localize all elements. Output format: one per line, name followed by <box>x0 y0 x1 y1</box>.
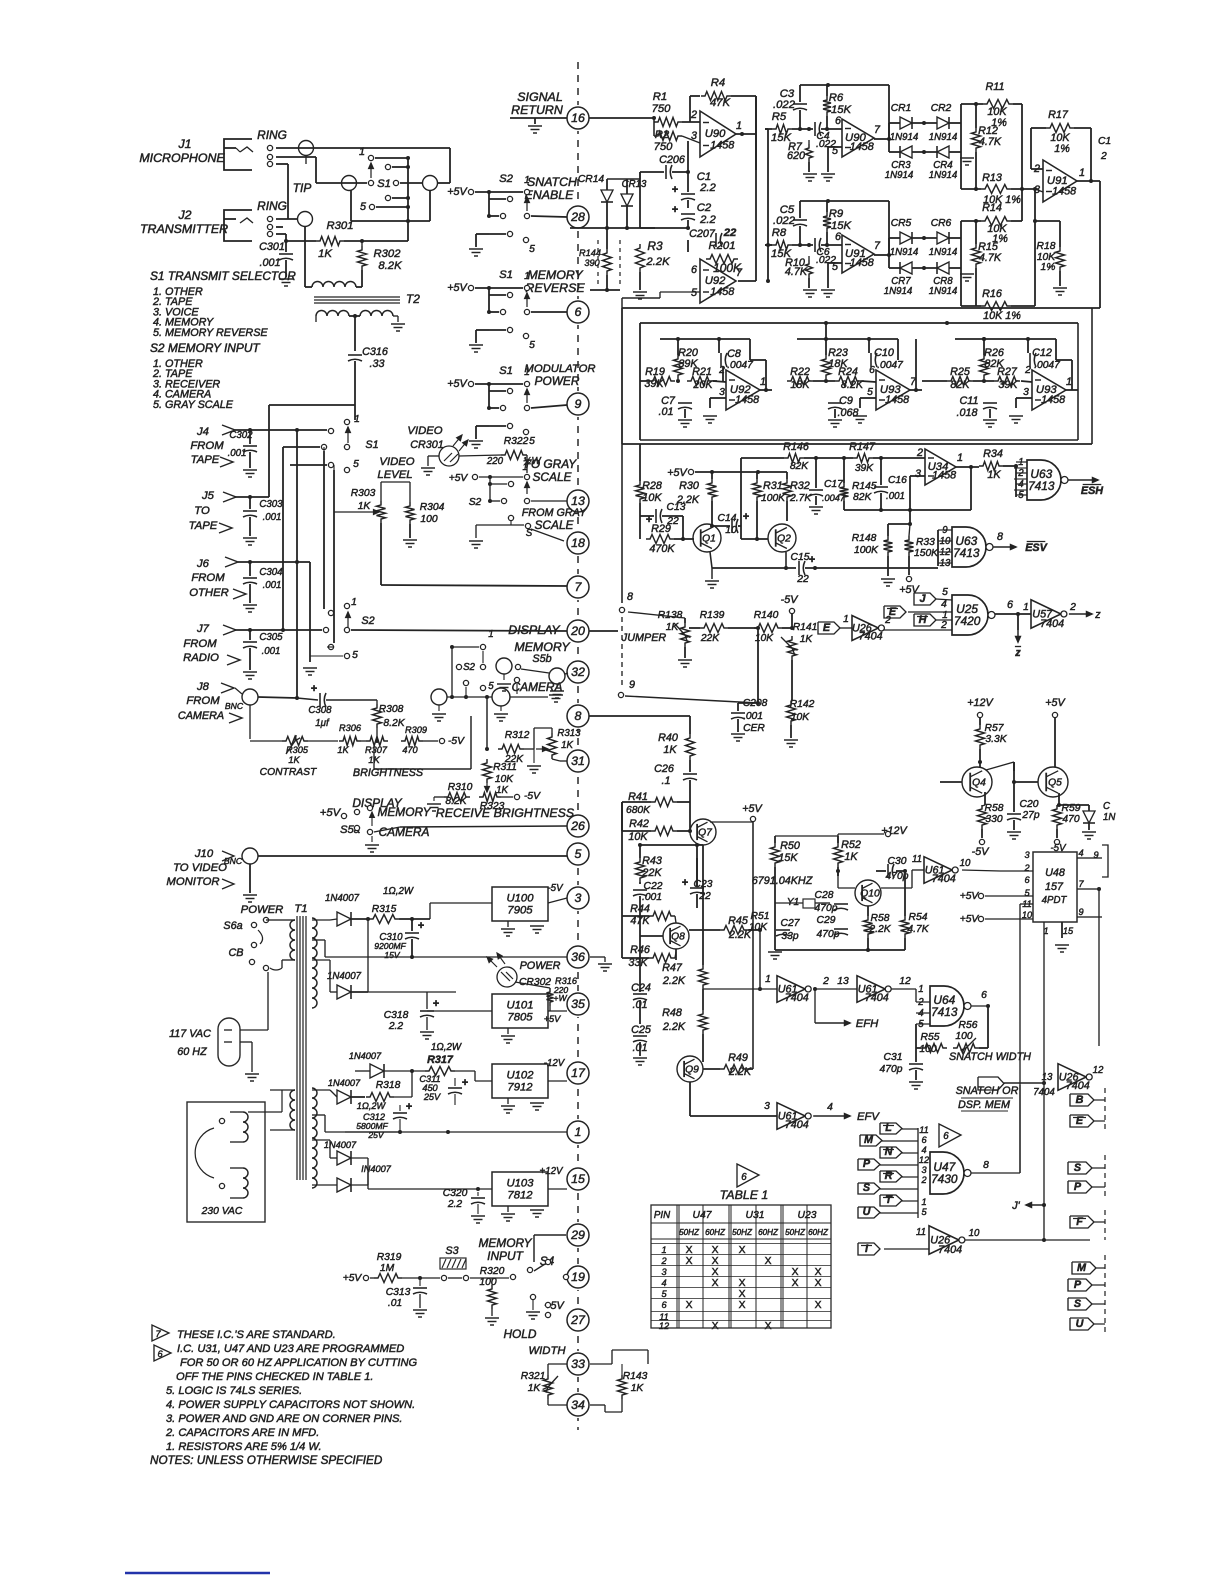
svg-text:C13: C13 <box>667 502 686 513</box>
svg-text:X: X <box>815 1300 822 1311</box>
svg-text:FROM: FROM <box>183 638 217 650</box>
svg-text:1: 1 <box>354 414 360 425</box>
svg-text:6: 6 <box>943 1131 949 1142</box>
svg-text:32: 32 <box>571 665 585 679</box>
svg-text:17: 17 <box>571 1066 586 1080</box>
svg-text:J5: J5 <box>201 490 215 502</box>
svg-text:27: 27 <box>570 1313 586 1327</box>
svg-text:CR1: CR1 <box>891 103 912 114</box>
svg-text:SNATCH: SNATCH <box>527 175 577 189</box>
svg-text:C2: C2 <box>697 202 712 214</box>
svg-text:2: 2 <box>940 620 947 631</box>
svg-text:C29: C29 <box>817 915 836 926</box>
svg-text:C301: C301 <box>259 241 285 253</box>
svg-text:2: 2 <box>690 109 697 121</box>
svg-text:1K: 1K <box>358 501 372 512</box>
svg-text:1: 1 <box>918 984 923 995</box>
svg-text:6: 6 <box>661 1300 667 1310</box>
svg-text:-5V: -5V <box>972 846 991 858</box>
svg-text:82K: 82K <box>950 379 970 391</box>
svg-text:33: 33 <box>571 1357 585 1371</box>
svg-text:C8: C8 <box>727 348 741 360</box>
svg-text:S1: S1 <box>499 365 513 377</box>
svg-text:R58: R58 <box>871 913 890 924</box>
svg-text:1%: 1% <box>1041 262 1056 273</box>
svg-text:3: 3 <box>921 1165 927 1175</box>
svg-text:.001: .001 <box>259 257 280 269</box>
svg-text:1458: 1458 <box>710 140 734 152</box>
svg-text:R302: R302 <box>373 248 401 260</box>
svg-text:28: 28 <box>570 210 585 224</box>
svg-text:R313: R313 <box>557 728 581 739</box>
svg-text:WIDTH: WIDTH <box>528 1345 566 1357</box>
svg-text:12: 12 <box>899 976 911 987</box>
svg-text:6: 6 <box>981 990 987 1001</box>
svg-text:7430: 7430 <box>931 1172 958 1186</box>
svg-text:1N: 1N <box>1103 812 1115 823</box>
svg-text:M: M <box>1077 1262 1087 1274</box>
svg-text:SNATCH OR: SNATCH OR <box>956 1085 1019 1097</box>
svg-text:CR6: CR6 <box>931 218 952 229</box>
svg-text:3: 3 <box>764 1101 770 1112</box>
svg-text:470p: 470p <box>817 929 840 940</box>
svg-text:4: 4 <box>921 1145 926 1155</box>
svg-text:1458: 1458 <box>850 141 874 153</box>
svg-text:100K: 100K <box>854 545 879 556</box>
svg-text:R301: R301 <box>326 220 353 232</box>
svg-text:T2: T2 <box>406 292 420 306</box>
svg-text:R318: R318 <box>376 1080 401 1091</box>
svg-text:NOTES: UNLESS OTHERWISE SPECIF: NOTES: UNLESS OTHERWISE SPECIFIED <box>150 1454 383 1467</box>
svg-text:10K 1%: 10K 1% <box>983 310 1021 322</box>
svg-text:1K: 1K <box>318 248 332 260</box>
svg-text:750: 750 <box>654 141 674 153</box>
svg-text:+: + <box>743 511 749 523</box>
svg-text:15: 15 <box>1063 926 1074 936</box>
svg-text:R56: R56 <box>959 1020 978 1031</box>
svg-text:7413: 7413 <box>931 1005 958 1019</box>
svg-text:-5V: -5V <box>448 736 465 747</box>
svg-text:C11: C11 <box>959 395 978 407</box>
svg-text:R: R <box>885 1170 893 1182</box>
svg-text:26: 26 <box>570 819 585 833</box>
svg-text:5: 5 <box>352 650 358 661</box>
svg-text:U31: U31 <box>746 1210 765 1221</box>
svg-text:.01: .01 <box>658 406 673 418</box>
svg-text:EFV: EFV <box>857 1111 880 1123</box>
svg-text:PIN: PIN <box>654 1210 670 1221</box>
svg-text:3: 3 <box>915 468 921 480</box>
svg-text:1N914: 1N914 <box>890 247 919 258</box>
svg-text:35: 35 <box>571 997 585 1011</box>
svg-text:7404: 7404 <box>785 1119 809 1131</box>
svg-text:U100: U100 <box>506 893 534 905</box>
svg-text:1N4007: 1N4007 <box>328 1078 361 1088</box>
svg-text:DSP. MEM: DSP. MEM <box>958 1099 1010 1111</box>
svg-text:C1: C1 <box>1098 136 1111 147</box>
svg-text:1: 1 <box>957 452 963 464</box>
svg-text:TIP: TIP <box>293 181 312 195</box>
svg-text:X: X <box>712 1245 719 1256</box>
svg-text:5. MEMORY REVERSE: 5. MEMORY REVERSE <box>153 327 268 339</box>
svg-text:3: 3 <box>719 387 725 398</box>
svg-text:R309: R309 <box>405 725 427 735</box>
svg-text:+5V: +5V <box>447 378 468 390</box>
svg-text:R320: R320 <box>480 1266 505 1277</box>
svg-text:CR302: CR302 <box>519 977 551 988</box>
svg-text:15V: 15V <box>384 950 401 960</box>
svg-text:.1: .1 <box>661 775 670 787</box>
svg-text:X: X <box>815 1278 822 1289</box>
svg-text:1: 1 <box>524 367 530 378</box>
svg-text:8: 8 <box>627 591 633 603</box>
svg-text:.001: .001 <box>743 711 763 722</box>
svg-text:5: 5 <box>691 287 698 299</box>
svg-text:-5V: -5V <box>524 791 541 802</box>
svg-text:2: 2 <box>718 365 725 376</box>
svg-text:11: 11 <box>919 1125 929 1135</box>
svg-text:+W: +W <box>553 993 567 1003</box>
svg-text:1K: 1K <box>528 1383 542 1394</box>
svg-text:R52: R52 <box>841 839 861 851</box>
svg-text:2.2K: 2.2K <box>662 975 686 987</box>
svg-text:7420: 7420 <box>954 614 981 628</box>
svg-text:RECEIVE BRIGHTNESS: RECEIVE BRIGHTNESS <box>436 806 575 820</box>
svg-text:TAPE: TAPE <box>189 520 218 532</box>
svg-text:1N914: 1N914 <box>890 132 919 143</box>
svg-text:4. POWER SUPPLY CAPACITORS NOT: 4. POWER SUPPLY CAPACITORS NOT SHOWN. <box>166 1399 415 1411</box>
svg-text:50HZ: 50HZ <box>732 1228 753 1237</box>
svg-text:R54: R54 <box>909 912 928 923</box>
svg-text:1: 1 <box>921 1197 926 1207</box>
svg-text:+: + <box>406 1101 412 1113</box>
svg-text:2: 2 <box>660 1256 666 1266</box>
svg-text:1N4007: 1N4007 <box>325 893 360 904</box>
svg-text:P: P <box>863 1158 871 1170</box>
svg-text:2. CAPACITORS ARE IN MFD.: 2. CAPACITORS ARE IN MFD. <box>165 1427 319 1439</box>
svg-text:X: X <box>739 1278 746 1289</box>
svg-text:X: X <box>765 1256 772 1267</box>
svg-text:J7: J7 <box>196 623 210 635</box>
svg-text:2.7K: 2.7K <box>789 493 812 504</box>
svg-text:R308: R308 <box>379 704 404 715</box>
svg-text:.01: .01 <box>388 1298 402 1309</box>
svg-text:+5V: +5V <box>899 584 920 596</box>
svg-text:100: 100 <box>955 1031 972 1042</box>
svg-text:39K: 39K <box>855 463 874 474</box>
svg-text:1458: 1458 <box>1052 185 1076 197</box>
svg-text:C30: C30 <box>888 856 907 867</box>
svg-text:CR5: CR5 <box>891 218 912 229</box>
svg-text:S6a: S6a <box>223 920 242 932</box>
svg-text:THESE I.C.'S ARE STANDARD.: THESE I.C.'S ARE STANDARD. <box>177 1329 336 1341</box>
svg-text:2.2K: 2.2K <box>662 1021 686 1033</box>
svg-text:Q8: Q8 <box>671 932 685 943</box>
svg-text:1N914: 1N914 <box>929 247 958 258</box>
svg-text:2: 2 <box>1024 365 1031 376</box>
svg-text:C26: C26 <box>654 763 674 775</box>
svg-text:HOLD: HOLD <box>503 1327 536 1341</box>
svg-text:1: 1 <box>488 629 493 640</box>
svg-text:1: 1 <box>524 175 530 186</box>
svg-text:POWER: POWER <box>535 374 580 388</box>
svg-text:4.7K: 4.7K <box>979 252 1002 264</box>
svg-text:.001: .001 <box>262 646 281 657</box>
svg-text:1K: 1K <box>631 1383 645 1394</box>
svg-text:5: 5 <box>661 1289 667 1299</box>
svg-text:+5V: +5V <box>544 1014 561 1024</box>
svg-text:1N914: 1N914 <box>929 286 958 297</box>
svg-text:7404: 7404 <box>859 630 883 642</box>
svg-text:1: 1 <box>843 614 849 625</box>
svg-text:VIDEO: VIDEO <box>407 425 442 437</box>
svg-text:R139: R139 <box>700 610 725 621</box>
svg-text:FROM: FROM <box>190 440 224 452</box>
svg-text:15K: 15K <box>778 852 798 864</box>
svg-text:2: 2 <box>916 447 923 459</box>
svg-text:S2 MEMORY INPUT: S2 MEMORY INPUT <box>150 341 260 355</box>
svg-text:10K: 10K <box>749 922 768 933</box>
svg-text:.022: .022 <box>773 99 796 111</box>
svg-text:C10: C10 <box>874 347 894 359</box>
svg-text:60HZ: 60HZ <box>705 1228 726 1237</box>
svg-text:R3: R3 <box>647 239 663 253</box>
svg-text:+5V: +5V <box>447 186 468 198</box>
svg-text:C305: C305 <box>259 632 283 643</box>
svg-text:.0047: .0047 <box>727 360 754 371</box>
svg-text:POWER: POWER <box>520 960 561 972</box>
svg-text:R5: R5 <box>772 111 787 123</box>
svg-text:SCALE: SCALE <box>535 518 575 532</box>
svg-text:1: 1 <box>359 146 365 158</box>
svg-text:4PDT: 4PDT <box>1042 895 1068 906</box>
svg-text:Q1: Q1 <box>702 534 716 545</box>
svg-text:4: 4 <box>827 1102 833 1113</box>
svg-text:1N914: 1N914 <box>884 286 913 297</box>
svg-text:LEVEL: LEVEL <box>377 469 412 481</box>
svg-text:U101: U101 <box>506 1000 533 1012</box>
svg-text:JUMPER: JUMPER <box>621 632 667 644</box>
svg-text:C15: C15 <box>791 552 810 563</box>
svg-text:4.7K: 4.7K <box>979 136 1002 148</box>
svg-text:7: 7 <box>874 240 881 252</box>
svg-text:S2: S2 <box>463 662 475 673</box>
svg-text:R141: R141 <box>793 622 818 633</box>
svg-text:X: X <box>792 1267 799 1278</box>
svg-text:R57: R57 <box>985 723 1005 734</box>
svg-text:C206: C206 <box>659 154 685 166</box>
svg-text:.0047: .0047 <box>877 360 904 371</box>
svg-text:X: X <box>686 1245 693 1256</box>
svg-text:J8: J8 <box>196 681 210 693</box>
svg-text:Q4: Q4 <box>972 778 986 789</box>
svg-text:EFH: EFH <box>856 1018 879 1030</box>
svg-text:4: 4 <box>941 599 947 610</box>
svg-text:DISPLAY: DISPLAY <box>352 796 402 810</box>
svg-text:5: 5 <box>867 387 873 398</box>
svg-text:R31: R31 <box>763 480 783 492</box>
svg-text:U: U <box>1076 1318 1085 1330</box>
svg-text:C27: C27 <box>781 918 801 929</box>
svg-text:CB: CB <box>229 947 244 959</box>
svg-text:+: + <box>809 554 815 566</box>
svg-text:7: 7 <box>874 124 881 136</box>
svg-text:MEMORY: MEMORY <box>514 640 571 654</box>
svg-text:9: 9 <box>575 397 582 411</box>
svg-text:X: X <box>712 1278 719 1289</box>
svg-text:12: 12 <box>919 1155 929 1165</box>
svg-text:TAPE: TAPE <box>191 454 220 466</box>
svg-text:10: 10 <box>969 1228 980 1239</box>
svg-text:.001: .001 <box>263 512 282 523</box>
svg-text:1: 1 <box>736 120 742 132</box>
svg-text:12: 12 <box>659 1321 669 1331</box>
svg-text:S2: S2 <box>361 615 374 627</box>
svg-text:J1: J1 <box>177 137 191 151</box>
svg-text:150K: 150K <box>914 548 939 559</box>
svg-text:1N914: 1N914 <box>885 170 914 181</box>
svg-text:13: 13 <box>837 976 849 987</box>
svg-text:2.2: 2.2 <box>699 214 716 226</box>
svg-text:6: 6 <box>835 231 841 243</box>
svg-text:2.2: 2.2 <box>699 182 716 194</box>
svg-text:C31: C31 <box>884 1052 903 1063</box>
svg-text:U48: U48 <box>1045 867 1065 879</box>
svg-text:FROM: FROM <box>186 695 220 707</box>
svg-text:S: S <box>1074 1298 1082 1310</box>
svg-text:18: 18 <box>571 536 585 550</box>
svg-text:1N4007: 1N4007 <box>349 1051 382 1061</box>
svg-text:R45: R45 <box>728 915 749 927</box>
svg-text:J2: J2 <box>177 208 191 222</box>
svg-text:1: 1 <box>661 1245 666 1255</box>
svg-text:S1: S1 <box>377 178 391 190</box>
svg-text:R145: R145 <box>852 481 877 492</box>
svg-text:33p: 33p <box>781 931 798 942</box>
svg-text:U102: U102 <box>506 1070 534 1082</box>
svg-text:1N4007: 1N4007 <box>324 1140 357 1150</box>
svg-text:1K: 1K <box>561 740 573 751</box>
svg-text:8: 8 <box>997 531 1003 543</box>
svg-text:OTHER: OTHER <box>189 587 229 599</box>
svg-text:1: 1 <box>522 462 527 472</box>
svg-text:+5V: +5V <box>447 282 468 294</box>
svg-text:27p: 27p <box>1021 810 1039 821</box>
svg-text:3: 3 <box>575 891 582 905</box>
svg-text:1M: 1M <box>380 1263 395 1274</box>
svg-text:9: 9 <box>1078 907 1083 917</box>
svg-text:680K: 680K <box>626 805 651 816</box>
svg-text:POWER: POWER <box>241 904 284 916</box>
svg-text:1μf: 1μf <box>315 718 330 729</box>
svg-text:60HZ: 60HZ <box>758 1228 779 1237</box>
svg-text:+: + <box>433 998 439 1010</box>
svg-text:60HZ: 60HZ <box>808 1228 829 1237</box>
svg-text:CONTRAST: CONTRAST <box>260 767 317 778</box>
svg-text:BNC: BNC <box>225 701 244 711</box>
svg-text:S2: S2 <box>499 173 514 185</box>
svg-text:1K: 1K <box>496 785 508 796</box>
svg-text:+5V: +5V <box>343 1273 363 1284</box>
svg-text:6: 6 <box>1024 875 1030 885</box>
svg-text:7413: 7413 <box>1028 479 1055 493</box>
svg-text:1: 1 <box>1079 167 1085 179</box>
svg-text:OFF THE PINS CHECKED IN TABLE: OFF THE PINS CHECKED IN TABLE 1. <box>176 1371 373 1383</box>
svg-text:5: 5 <box>529 436 535 447</box>
svg-text:1Ω,2W: 1Ω,2W <box>431 1042 462 1053</box>
svg-text:750: 750 <box>652 103 672 115</box>
svg-text:CR14: CR14 <box>578 174 605 185</box>
svg-text:5: 5 <box>360 201 367 213</box>
svg-text:X: X <box>792 1278 799 1289</box>
svg-text:R18: R18 <box>1037 241 1056 252</box>
svg-text:1Ω,2W: 1Ω,2W <box>357 1101 387 1111</box>
svg-text:-12V: -12V <box>544 1058 566 1069</box>
svg-text:X: X <box>712 1256 719 1267</box>
svg-text:M: M <box>864 1134 874 1146</box>
svg-text:REVERSE: REVERSE <box>525 281 585 295</box>
svg-text:2.2K: 2.2K <box>645 256 670 268</box>
svg-text:S1: S1 <box>499 269 513 281</box>
svg-text:.018: .018 <box>956 407 977 419</box>
svg-text:1Ω,2W: 1Ω,2W <box>383 886 414 897</box>
svg-text:6: 6 <box>1007 599 1013 611</box>
svg-text:.0047: .0047 <box>1034 360 1061 371</box>
svg-text:117 VAC: 117 VAC <box>169 1028 211 1040</box>
svg-text:36: 36 <box>571 950 585 964</box>
svg-text:7404: 7404 <box>932 873 956 885</box>
svg-text:S: S <box>863 1182 871 1194</box>
svg-text:8.2K: 8.2K <box>378 260 402 272</box>
svg-text:C316: C316 <box>362 346 388 358</box>
svg-text:R33: R33 <box>916 537 935 548</box>
svg-text:TRANSMITTER: TRANSMITTER <box>140 222 228 236</box>
svg-text:1. RESISTORS ARE 5% 1/4 W.: 1. RESISTORS ARE 5% 1/4 W. <box>166 1441 322 1453</box>
svg-text:+5V: +5V <box>320 807 342 819</box>
svg-text:C207: C207 <box>689 228 716 240</box>
svg-text:1K: 1K <box>663 744 677 756</box>
svg-text:J10: J10 <box>194 848 214 860</box>
svg-text:1N4007: 1N4007 <box>327 971 362 982</box>
svg-text:SIGNAL: SIGNAL <box>517 90 563 104</box>
svg-text:z: z <box>1094 609 1101 621</box>
svg-text:TABLE 1: TABLE 1 <box>720 1188 769 1202</box>
svg-text:R13: R13 <box>982 172 1002 184</box>
svg-text:T1: T1 <box>294 903 307 915</box>
svg-text:R1: R1 <box>653 91 667 103</box>
svg-text:R322: R322 <box>504 436 529 447</box>
svg-text:BNC: BNC <box>224 856 243 866</box>
svg-text:1N914: 1N914 <box>929 132 958 143</box>
svg-text:J6: J6 <box>196 558 210 570</box>
svg-text:X: X <box>686 1256 693 1267</box>
svg-text:1: 1 <box>351 597 357 608</box>
svg-text:Q10: Q10 <box>860 889 880 900</box>
svg-text:RING: RING <box>257 199 287 213</box>
svg-text:7404: 7404 <box>1040 618 1064 630</box>
svg-text:E: E <box>889 606 897 618</box>
svg-text:E: E <box>1076 1115 1084 1127</box>
svg-text:7: 7 <box>1078 879 1084 889</box>
svg-text:B: B <box>1076 1094 1084 1106</box>
svg-text:z: z <box>1014 647 1021 659</box>
svg-text:8: 8 <box>983 1160 989 1171</box>
svg-text:R48: R48 <box>662 1007 682 1019</box>
svg-text:6: 6 <box>157 1349 163 1359</box>
svg-text:1458: 1458 <box>932 470 956 482</box>
svg-text:R28: R28 <box>642 480 662 492</box>
svg-text:7404: 7404 <box>785 992 809 1004</box>
